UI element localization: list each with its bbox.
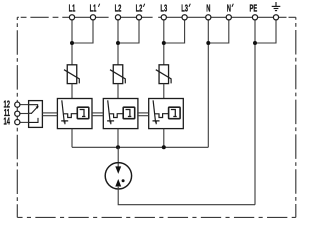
spark gap F1: [105, 163, 131, 189]
terminal L3: [161, 15, 166, 20]
svg-text:L2: L2: [115, 3, 122, 14]
terminal 12: [15, 102, 20, 107]
node L2 junction: [116, 41, 120, 45]
wire spark gap to PE run: [118, 187, 255, 205]
wire varistor RV1 to box: [71, 84, 73, 99]
terminal N: [206, 15, 211, 20]
terminal L3': [182, 15, 187, 20]
mechanical link box1 to box2: [92, 113, 103, 116]
disconnector box 1: [57, 99, 92, 129]
wire PE drop: [254, 20, 256, 205]
wire L3 drop: [163, 20, 165, 65]
wire L2 drop: [117, 20, 119, 65]
node N junction: [206, 41, 210, 45]
wire L3' drop and join: [164, 20, 185, 43]
terminal L1: [69, 15, 74, 20]
varistor RV3: [156, 65, 171, 84]
node bus junction box3: [162, 145, 166, 149]
wire varistor RV2 to box: [117, 84, 119, 99]
wire L1' drop and join: [72, 20, 93, 43]
terminal L2': [136, 15, 141, 20]
remote signalling contact box: [29, 101, 43, 128]
wire terminal 14: [20, 121, 29, 123]
wire bus to spark gap: [117, 147, 119, 166]
wire L2' drop and join: [118, 20, 139, 43]
enclosure border (dash-dot): [17, 17, 296, 217]
node L1 junction: [70, 41, 74, 45]
terminal L2: [115, 15, 120, 20]
mechanical link box2 to box3: [137, 113, 149, 116]
wire L1 drop: [71, 20, 73, 65]
node bus junction box2: [116, 145, 120, 149]
wire terminal 12: [20, 104, 29, 106]
terminal earth: [273, 15, 278, 20]
wire neutral bus: [72, 146, 208, 148]
wire box3 to bus: [163, 129, 165, 148]
terminal L1': [90, 15, 95, 20]
wire N drop to bus: [207, 20, 209, 147]
svg-text:L2: L2: [136, 3, 143, 14]
wire terminal 11: [20, 113, 29, 115]
terminal 11: [15, 111, 20, 116]
disconnector box 2: [103, 99, 138, 129]
disconnector box 3: [149, 99, 184, 129]
wire box2 to bus: [117, 129, 119, 148]
svg-text:N: N: [206, 3, 210, 14]
svg-text:N: N: [227, 3, 231, 14]
wire varistor RV3 to box: [163, 84, 165, 99]
contact arrowhead: [36, 106, 39, 109]
mechanical link contact-box to box1: [42, 113, 57, 116]
wire N' drop and join: [208, 20, 229, 43]
wire earth terminal drop and join: [255, 20, 276, 43]
terminal 14: [15, 120, 20, 125]
svg-text:L3: L3: [160, 3, 167, 14]
svg-text:14: 14: [4, 116, 11, 127]
earth symbol: [272, 2, 281, 11]
svg-text:L3: L3: [181, 3, 188, 14]
svg-text:PE: PE: [250, 3, 258, 14]
node L3 junction: [162, 41, 166, 45]
svg-text:L1: L1: [69, 3, 76, 14]
terminal N': [226, 15, 231, 20]
varistor RV2: [110, 65, 125, 84]
terminal PE: [252, 15, 257, 20]
varistor RV1: [64, 65, 79, 84]
node PE junction: [253, 41, 257, 45]
svg-text:L1: L1: [90, 3, 97, 14]
wire box1 to bus: [71, 129, 73, 148]
